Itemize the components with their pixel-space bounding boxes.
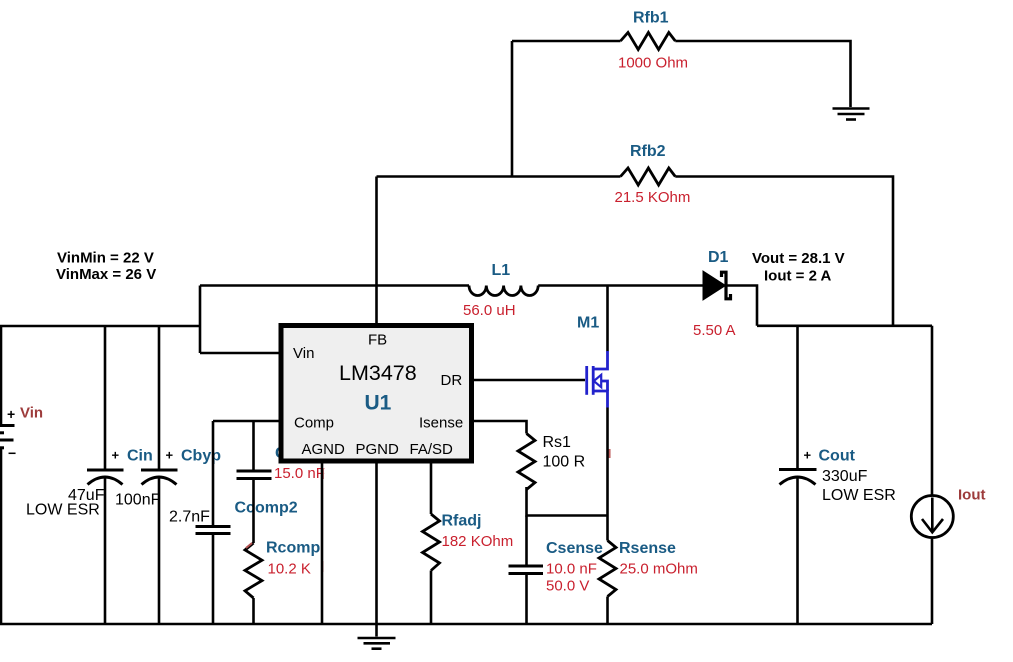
- transistor M1 (NMOS): [577, 315, 608, 408]
- wire Rs1 to M1 source junction: [527, 487, 608, 516]
- wire M1 drain from top rail: [606, 286, 609, 352]
- svg-text:AGND: AGND: [302, 441, 346, 458]
- svg-text:Ccomp2: Ccomp2: [235, 500, 298, 517]
- svg-text:+: +: [112, 448, 120, 463]
- svg-text:Cin: Cin: [127, 448, 153, 465]
- svg-text:Rfb2: Rfb2: [630, 143, 666, 160]
- capacitor Cout: [779, 326, 896, 624]
- svg-text:−: −: [8, 445, 16, 461]
- svg-text:LOW ESR: LOW ESR: [26, 502, 100, 519]
- wire PGND pin: [375, 461, 378, 624]
- wire Rfb1 right segment: [675, 41, 850, 107]
- svg-text:+: +: [7, 406, 15, 422]
- ground top right: [833, 109, 870, 120]
- resistor Rcomp: [245, 540, 323, 625]
- svg-text:21.5 KOhm: 21.5 KOhm: [615, 189, 691, 206]
- resistor Rs1: [518, 434, 585, 490]
- svg-text:L1: L1: [492, 262, 511, 279]
- capacitor Ccomp2: [169, 421, 298, 624]
- inductor L1: [463, 262, 538, 319]
- svg-text:56.0 uH: 56.0 uH: [463, 302, 516, 319]
- svg-text:M1: M1: [577, 315, 599, 332]
- wire Comp pin to comp network: [213, 420, 280, 423]
- svg-text:Comp: Comp: [294, 415, 334, 432]
- wire Vin rail: [0, 325, 200, 328]
- svg-text:DR: DR: [441, 372, 463, 389]
- svg-text:Csense: Csense: [546, 540, 603, 557]
- svg-text:182 KOhm: 182 KOhm: [442, 533, 514, 550]
- current source Iout: [911, 326, 985, 624]
- wire FB vertical: [375, 177, 378, 326]
- ground bottom (PGND): [358, 624, 396, 649]
- wire Rfb2 left segment: [377, 175, 621, 178]
- svg-text:Rcomp: Rcomp: [266, 540, 320, 557]
- capacitor Cbyp: [115, 326, 221, 624]
- capacitor Ccomp (label mostly hidden by U1): [237, 421, 330, 543]
- wire Isense pin: [472, 421, 527, 434]
- svg-text:330uF: 330uF: [822, 468, 868, 485]
- svg-text:Rs1: Rs1: [543, 434, 572, 451]
- svg-text:Rfb1: Rfb1: [633, 10, 669, 27]
- wire Rfb1 left segment: [512, 40, 621, 43]
- svg-text:+: +: [804, 448, 812, 463]
- svg-text:LM3478: LM3478: [339, 361, 417, 385]
- svg-text:1000 Ohm: 1000 Ohm: [618, 55, 688, 72]
- svg-text:VinMin = 22 V: VinMin = 22 V: [57, 250, 154, 267]
- wire U1 Vin pin: [200, 352, 280, 355]
- svg-text:FA/SD: FA/SD: [410, 441, 454, 458]
- svg-text:25.0 mOhm: 25.0 mOhm: [620, 561, 698, 578]
- svg-text:Cout: Cout: [819, 448, 856, 465]
- svg-text:+: +: [166, 448, 174, 463]
- resistor Rfadj: [423, 513, 514, 625]
- svg-text:Rfadj: Rfadj: [442, 513, 482, 530]
- wire Rfb1 to Rfb2 vertical: [511, 41, 514, 177]
- svg-text:15.0 nF: 15.0 nF: [274, 465, 325, 482]
- wire output rail: [757, 324, 932, 327]
- svg-text:PGND: PGND: [356, 441, 400, 458]
- svg-text:Rsense: Rsense: [619, 540, 676, 557]
- IC U1 LM3478 controller box: [281, 326, 472, 462]
- wire AGND pin: [321, 461, 324, 624]
- wire M1 source down: [606, 408, 609, 516]
- wire DR pin to gate: [472, 379, 585, 382]
- svg-text:Vin: Vin: [20, 405, 43, 422]
- resistor Rfb1: [618, 10, 688, 72]
- svg-text:Vin: Vin: [293, 345, 314, 362]
- wire L1 to diode: [538, 284, 703, 287]
- svg-text:U1: U1: [365, 392, 392, 415]
- voltage source Vin (battery): [0, 326, 43, 624]
- wire FA/SD pin: [430, 461, 433, 514]
- svg-text:100 R: 100 R: [543, 454, 586, 471]
- svg-text:2.7nF: 2.7nF: [169, 509, 210, 526]
- wire top rail to Vin rail vertical: [199, 286, 202, 354]
- resistor Rsense: [599, 516, 698, 625]
- svg-text:10.0 nF: 10.0 nF: [546, 561, 597, 578]
- red mark artifact on source wire: [608, 449, 611, 458]
- svg-text:100nF: 100nF: [115, 492, 161, 509]
- svg-text:10.2 K: 10.2 K: [268, 561, 311, 578]
- resistor Rfb2: [615, 143, 691, 206]
- svg-text:50.0 V: 50.0 V: [546, 578, 589, 595]
- svg-text:Vout = 28.1 V: Vout = 28.1 V: [752, 250, 845, 267]
- svg-text:Isense: Isense: [419, 415, 463, 432]
- svg-text:D1: D1: [708, 249, 729, 266]
- wire Rfb2 right segment to output rail: [675, 177, 893, 326]
- wire input top rail: [200, 284, 469, 287]
- svg-text:5.50 A: 5.50 A: [693, 322, 736, 339]
- diode D1 (schottky): [693, 249, 736, 339]
- capacitor Cin: [26, 326, 153, 624]
- capacitor Csense: [509, 516, 604, 625]
- svg-text:VinMax = 26 V: VinMax = 26 V: [56, 266, 156, 283]
- svg-text:LOW ESR: LOW ESR: [822, 487, 896, 504]
- wire bottom ground rail: [0, 623, 932, 626]
- svg-text:Cbyp: Cbyp: [181, 448, 221, 465]
- svg-text:FB: FB: [368, 332, 387, 349]
- svg-text:Iout: Iout: [958, 487, 986, 504]
- wire diode to output rail corner: [727, 286, 757, 326]
- svg-text:Iout = 2 A: Iout = 2 A: [764, 268, 832, 285]
